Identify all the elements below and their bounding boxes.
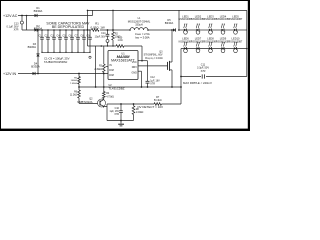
svg-text:GND: GND: [131, 71, 137, 74]
svg-text:MMBT2222A: MMBT2222A: [77, 100, 92, 104]
svg-text:DIM: DIM: [109, 74, 113, 77]
svg-text:BE DEPOPULATED: BE DEPOPULATED: [52, 25, 85, 29]
svg-text:B330A: B330A: [34, 9, 43, 13]
svg-text:LED2: LED2: [195, 14, 202, 18]
svg-text:DRV: DRV: [132, 66, 137, 69]
svg-text:MAX RIPPLE < 240mV: MAX RIPPLE < 240mV: [183, 81, 212, 85]
svg-text:0.05Ω, 1W: 0.05Ω, 1W: [91, 25, 105, 29]
svg-text:VCC: VCC: [132, 61, 137, 64]
svg-text:LED6: LED6: [182, 37, 189, 41]
svg-text:100kΩ: 100kΩ: [71, 80, 78, 82]
svg-text:TAJB107K025RNJ: TAJB107K025RNJ: [44, 60, 68, 64]
svg-text:NSSW100BT: NSSW100BT: [229, 19, 243, 21]
svg-text:B330A: B330A: [31, 64, 40, 68]
svg-text:B330A: B330A: [165, 21, 174, 25]
svg-text:+12V IN: +12V IN: [3, 72, 16, 76]
svg-text:LED4: LED4: [220, 14, 227, 18]
svg-text:X7R: X7R: [201, 70, 206, 73]
svg-text:1.00kΩ: 1.00kΩ: [136, 111, 144, 114]
svg-text:LED5: LED5: [232, 14, 239, 18]
svg-text:LED1: LED1: [182, 14, 189, 18]
svg-text:1.0Ω: 1.0Ω: [117, 39, 122, 42]
svg-text:10µF, 50V: 10µF, 50V: [95, 35, 106, 38]
svg-text:2.49kΩ: 2.49kΩ: [94, 68, 102, 71]
svg-text:LED9: LED9: [220, 37, 227, 41]
svg-text:50.4kΩ: 50.4kΩ: [154, 99, 162, 102]
svg-text:RDS(ON) = 0.04Ω: RDS(ON) = 0.04Ω: [145, 57, 163, 60]
svg-text:OV DETECT = 10V: OV DETECT = 10V: [137, 105, 163, 109]
svg-text:LED3: LED3: [207, 14, 214, 18]
svg-text:LED10: LED10: [232, 37, 240, 41]
svg-text:LED8: LED8: [207, 37, 214, 41]
svg-text:4.75kΩ: 4.75kΩ: [106, 96, 114, 99]
svg-text:LED7: LED7: [195, 37, 202, 41]
svg-text:7.43kΩ: 7.43kΩ: [70, 83, 77, 85]
svg-text:X7R: X7R: [114, 113, 119, 116]
svg-text:NSSW100BT: NSSW100BT: [229, 42, 243, 44]
svg-text:330µH: 330µH: [135, 24, 143, 27]
svg-text:DIM: DIM: [109, 69, 113, 72]
svg-text:X7R: X7R: [14, 28, 19, 31]
svg-text:+12V AC: +12V AC: [3, 14, 18, 18]
svg-text:11.2kΩ: 11.2kΩ: [70, 95, 77, 97]
svg-text:IN: IN: [109, 64, 112, 67]
svg-text:B330A: B330A: [28, 45, 37, 49]
svg-text:X7R: X7R: [150, 83, 155, 86]
